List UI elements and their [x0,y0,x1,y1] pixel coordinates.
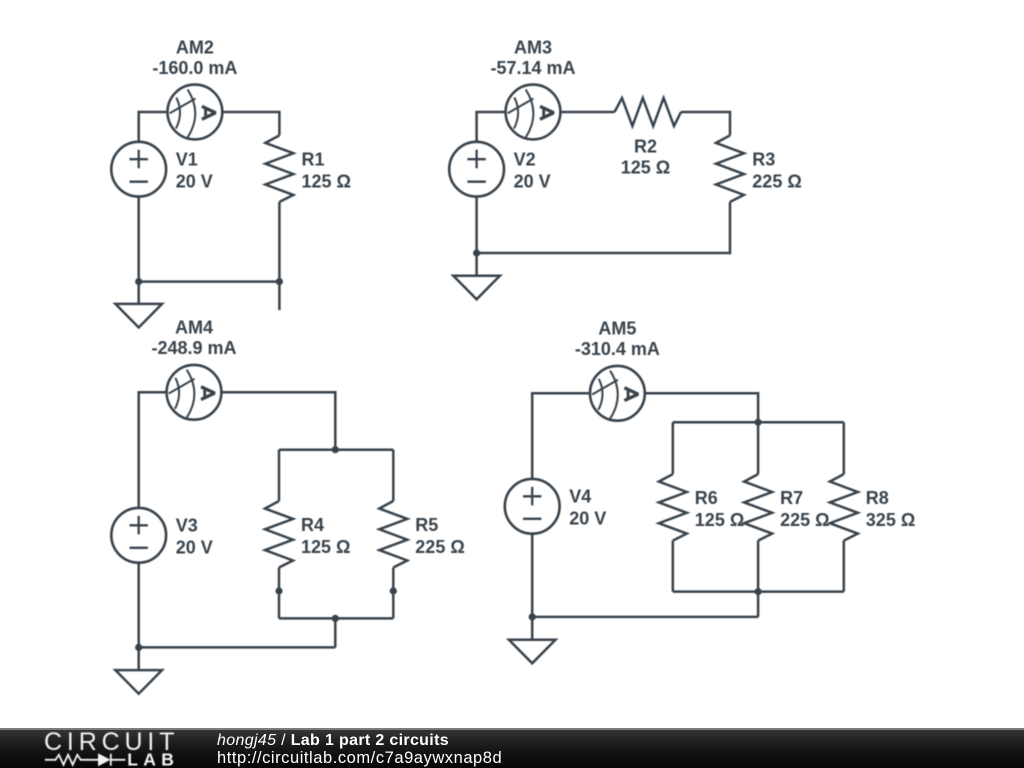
logo resistor-diode glyph [45,754,126,766]
junction node R4 bottom [275,587,282,594]
footer title line [217,732,449,750]
wire bottom rail R4 R5 [279,617,393,620]
svg-text:325 Ω: 325 Ω [866,510,915,530]
svg-text:-57.14 mA: -57.14 mA [490,58,575,78]
wire V3 top to AM4 [139,392,167,508]
svg-text:AM2: AM2 [176,37,214,57]
svg-text:225 Ω: 225 Ω [415,537,464,557]
wire bottom rail circuit 3 [139,646,336,649]
junction node parallel top 4 [755,419,762,426]
svg-text:-160.0 mA: -160.0 mA [152,58,237,78]
wire R4 bottom [278,568,281,619]
ammeter AM3 [506,85,561,140]
voltage source V2 [449,142,504,197]
wire R2 to R3 [681,112,730,135]
resistor R7 [744,474,772,540]
junction node circuit 3 [135,644,142,651]
voltage source V4 [505,479,560,534]
resistor R4 [265,501,293,568]
wire AM3 to R2 [560,111,614,114]
wire R5 bottom [392,568,395,619]
wire AM2 to R1 [222,112,279,135]
wire V2 top to AM3 [477,112,506,142]
wire V4 top to AM5 [532,393,590,479]
junction node parallel top [332,446,339,453]
svg-text:R3: R3 [752,150,775,170]
wire V1 top to AM2 [139,112,168,142]
svg-text:AM4: AM4 [175,318,213,338]
svg-text:20 V: 20 V [569,509,606,529]
junction node circuit 1 right [276,278,283,285]
wire bottom rail R6 R7 R8 [673,590,844,593]
svg-text:125 Ω: 125 Ω [302,172,351,192]
svg-text:V3: V3 [176,516,198,536]
wire parallel to bottom 4 [757,592,760,617]
svg-text:R2: R2 [634,137,657,157]
footer url line [217,749,502,768]
voltage source V3 [111,508,166,563]
junction node circuit 2 [473,249,480,256]
wire top rail R6 R7 R8 [673,421,844,424]
svg-text:R4: R4 [301,515,324,535]
junction node parallel bottom [332,615,339,622]
wire to ground 3 [137,647,140,670]
svg-text:AM3: AM3 [514,37,552,57]
wire V3 bottom [137,563,140,648]
wire R1 bottom [278,202,281,282]
svg-text:LAB: LAB [127,749,179,768]
logo diode triangle [98,753,111,766]
wire R3 bottom rail [477,202,730,253]
voltage source V1 [111,142,166,197]
svg-text:AM5: AM5 [598,319,636,339]
junction node circuit 1 left [135,278,142,285]
wire bottom rail circuit 4 [532,616,758,619]
svg-text:V1: V1 [176,150,198,170]
wire R7 bottom [757,541,760,592]
wire to ground 4 [531,617,534,640]
resistor R3 [716,135,744,202]
resistor R5 [379,501,407,568]
wire AM5 to parallel top [645,393,758,422]
wire V4 bottom [531,534,534,617]
ammeter AM2 [168,85,223,140]
svg-text:225 Ω: 225 Ω [780,510,829,530]
svg-text:V4: V4 [569,487,591,507]
ground circuit 3 [115,670,162,694]
svg-text:225 Ω: 225 Ω [752,172,801,192]
ground circuit 4 [509,640,556,664]
svg-text:R7: R7 [780,488,803,508]
wire stub below junction [278,282,281,311]
svg-text:R5: R5 [415,515,438,535]
wire to ground 1 [137,282,140,304]
svg-text:R8: R8 [866,488,889,508]
wire to R5 top [392,450,395,501]
wire top rail R4 R5 [279,448,393,451]
wire to R7 top [757,422,760,474]
svg-text:R1: R1 [302,150,325,170]
footer bar [0,728,1024,768]
svg-text:-310.4 mA: -310.4 mA [575,339,660,359]
ammeter AM4 [167,365,222,420]
wire to R4 top [278,450,281,501]
wire R6 bottom [672,541,675,592]
svg-text:20 V: 20 V [514,172,551,192]
svg-text:125 Ω: 125 Ω [621,158,670,178]
junction node parallel bottom 4 [755,588,762,595]
CircuitLab logo [0,730,200,768]
svg-text:20 V: 20 V [176,172,213,192]
svg-text:V2: V2 [514,150,536,170]
ground circuit 2 [453,276,500,300]
junction node R5 bottom [390,587,397,594]
wire to R8 top [843,422,846,474]
resistor R6 [659,474,687,540]
junction node circuit 4 [529,613,536,620]
wire AM4 to parallel top [221,392,335,449]
wire V2 bottom [475,197,478,253]
wire R8 bottom [843,541,846,592]
wire to R6 top [672,422,675,474]
resistor R8 [830,474,858,540]
ground circuit 1 [115,304,162,328]
resistor R2 [615,98,682,126]
wire to ground 2 [475,253,478,276]
resistor R1 [265,135,293,202]
ammeter AM5 [590,366,645,421]
svg-text:20 V: 20 V [176,538,213,558]
wire bottom rail circuit 1 [139,280,280,283]
wire parallel to bottom [334,618,337,647]
svg-text:125 Ω: 125 Ω [301,537,350,557]
svg-text:-248.9 mA: -248.9 mA [151,338,236,358]
svg-text:R6: R6 [695,488,718,508]
wire V1 bottom [137,197,140,282]
svg-text:125 Ω: 125 Ω [695,510,744,530]
